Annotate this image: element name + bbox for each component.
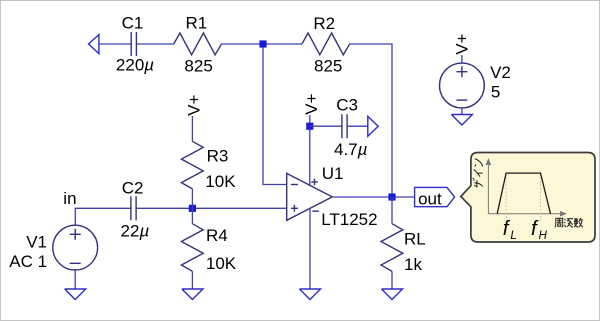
svg-text:R2: R2	[313, 14, 335, 33]
svg-text:H: H	[539, 230, 548, 242]
ground	[382, 289, 403, 300]
svg-text:R1: R1	[186, 14, 208, 33]
wire	[347, 125, 368, 127]
svg-text:C1: C1	[122, 14, 144, 33]
wire	[191, 116, 193, 141]
inverting input mark	[291, 184, 298, 186]
wire	[74, 270, 76, 289]
dotted line fH	[540, 174, 542, 222]
svg-text:825: 825	[184, 56, 212, 75]
power minus mark	[312, 210, 319, 212]
wire	[136, 43, 173, 45]
wire	[191, 189, 193, 224]
wire	[136, 207, 287, 209]
svg-text:V+: V+	[302, 93, 321, 114]
junction node	[189, 205, 196, 212]
capacitor C2	[131, 196, 136, 220]
power plus mark	[311, 179, 318, 186]
wire inverting input	[263, 47, 287, 184]
wire output	[332, 196, 414, 198]
svg-text:RL: RL	[404, 230, 426, 249]
resistor R4	[181, 224, 203, 272]
resistor R1	[174, 33, 222, 55]
minus mark	[70, 262, 81, 264]
ground	[182, 289, 203, 300]
wire	[99, 43, 131, 45]
svg-text:R3: R3	[207, 147, 229, 166]
wire	[350, 44, 392, 194]
glyph n	[475, 159, 483, 167]
glyph i	[474, 169, 483, 176]
port flag right (C3)	[368, 116, 378, 136]
svg-text:220µ: 220µ	[116, 56, 154, 75]
svg-text:R4: R4	[206, 226, 228, 245]
wire	[391, 271, 393, 289]
junction node	[259, 40, 266, 47]
resistor RL	[381, 224, 403, 272]
graph y-axis	[488, 162, 563, 214]
kanji shuu	[555, 218, 563, 227]
svg-text:out: out	[418, 190, 442, 209]
kanji ha	[564, 219, 573, 228]
svg-text:V+: V+	[453, 33, 472, 54]
resistor R2	[302, 33, 350, 55]
wire	[309, 115, 311, 185]
voltage source V2	[440, 63, 485, 108]
y-axis arrowhead	[486, 158, 492, 165]
callout balloon	[461, 153, 595, 243]
wire	[310, 125, 342, 127]
svg-text:in: in	[63, 189, 76, 208]
svg-text:C3: C3	[336, 95, 358, 114]
junction node	[306, 123, 313, 130]
svg-text:10K: 10K	[206, 254, 237, 273]
svg-text:V1: V1	[26, 233, 47, 252]
svg-text:LT1252: LT1252	[321, 210, 377, 229]
ground	[451, 115, 472, 126]
wire	[391, 197, 393, 224]
dotted line fL	[505, 174, 507, 222]
x-axis arrowhead	[560, 211, 567, 217]
wire op-amp V-	[309, 208, 311, 289]
svg-text:C2: C2	[122, 179, 144, 198]
svg-text:L: L	[510, 230, 516, 242]
minus mark	[456, 99, 467, 101]
svg-text:5: 5	[491, 83, 500, 102]
capacitor C1	[131, 32, 136, 56]
non-inverting input mark	[291, 205, 298, 212]
svg-text:V+: V+	[185, 94, 204, 115]
junction node	[388, 193, 395, 200]
glyph ge	[473, 178, 483, 188]
kanji suu	[574, 218, 583, 227]
wire	[191, 271, 193, 289]
svg-text:4.7µ: 4.7µ	[334, 140, 368, 159]
ground	[65, 289, 86, 300]
port flag left (top rail)	[89, 35, 99, 54]
svg-text:10K: 10K	[205, 172, 236, 191]
capacitor C3	[342, 114, 347, 138]
resistor R3	[181, 141, 203, 189]
svg-text:V2: V2	[490, 63, 511, 82]
plus mark	[456, 66, 467, 77]
wire	[461, 108, 463, 115]
svg-text:AC 1: AC 1	[9, 252, 47, 271]
axis label gain (katakana, rotated)	[473, 159, 483, 188]
svg-text:825: 825	[314, 56, 342, 75]
bandpass curve	[497, 173, 550, 214]
wire	[222, 43, 302, 45]
voltage source V1	[53, 225, 98, 270]
wire	[461, 55, 463, 63]
port flag out	[415, 187, 455, 206]
axis label frequency (kanji)	[555, 218, 583, 227]
plus mark	[70, 229, 81, 240]
svg-text:22µ: 22µ	[121, 222, 150, 241]
ground	[300, 289, 321, 300]
svg-text:1k: 1k	[404, 255, 422, 274]
svg-text:U1: U1	[322, 164, 344, 183]
op-amp U1	[287, 173, 333, 220]
wire	[75, 208, 131, 225]
